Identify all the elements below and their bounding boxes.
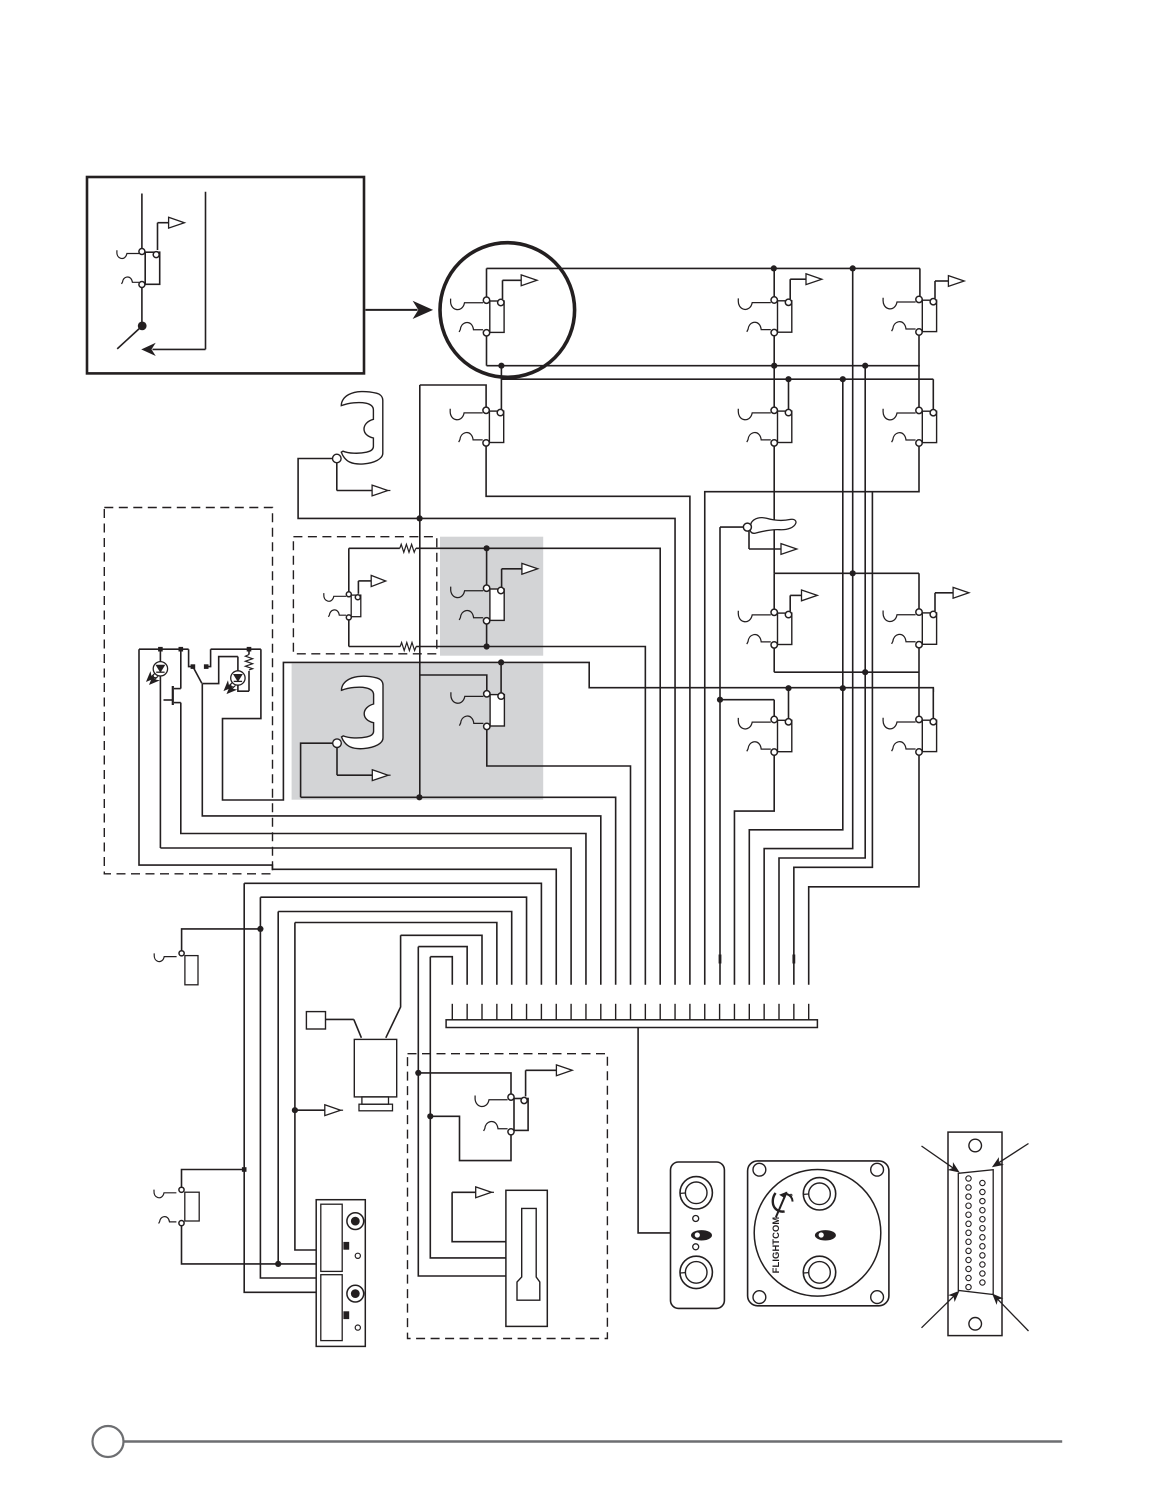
svg-text:FLIGHTCOM: FLIGHTCOM	[770, 1217, 781, 1274]
